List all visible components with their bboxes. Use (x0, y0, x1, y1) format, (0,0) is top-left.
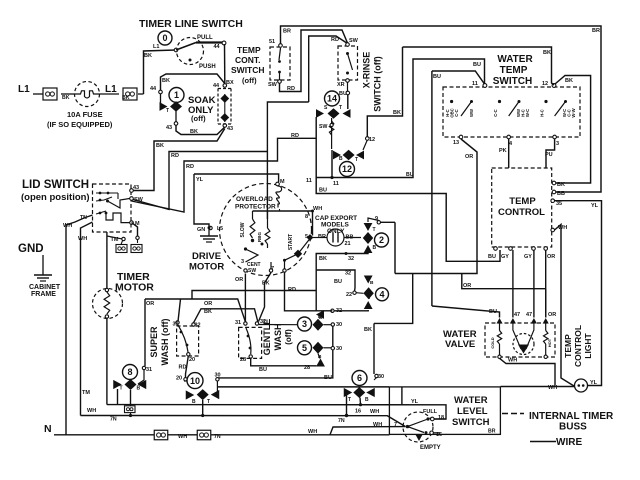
wire 22 to cam4 (356, 292, 363, 295)
svg-text:SLOW: SLOW (240, 222, 246, 237)
terminal soak right top (223, 84, 227, 88)
cam6 arrow right (366, 388, 375, 397)
WTS contact dot 2 (498, 100, 501, 103)
svg-text:TEMP: TEMP (563, 334, 573, 358)
soak contact arrow (160, 102, 168, 111)
svg-text:TM: TM (111, 237, 119, 243)
svg-text:18: 18 (438, 415, 444, 421)
svg-text:SWITCH: SWITCH (231, 65, 265, 75)
svg-text:INTERNAL TIMER: INTERNAL TIMER (529, 411, 614, 422)
cam14 arrow right (343, 109, 351, 118)
wire BU gentle 28 (251, 358, 317, 366)
wire WH lid 2 down (81, 222, 93, 416)
cam12 diamond (343, 150, 355, 160)
wire N buss (54, 434, 389, 436)
svg-text:SW: SW (134, 197, 144, 203)
svg-text:WH: WH (178, 434, 187, 440)
wire cam14 to cam12 (331, 118, 333, 149)
lid contact (99, 199, 102, 202)
svg-text:44: 44 (150, 86, 157, 92)
svg-text:RD: RD (331, 37, 339, 43)
timer cam circle 2 (375, 233, 389, 247)
svg-text:N: N (44, 423, 52, 435)
svg-text:FULL: FULL (423, 409, 438, 415)
svg-text:EMPTY: EMPTY (420, 445, 441, 451)
wire BU down to cam 14 contact (347, 95, 349, 109)
svg-text:DRIVE: DRIVE (192, 251, 221, 262)
cam2 diamond (363, 232, 373, 244)
terminal 28 gentle (249, 355, 252, 358)
terminal 20 low (184, 378, 187, 381)
connector plug L1-1 (43, 88, 57, 100)
water level switch box (389, 387, 500, 435)
svg-text:WASH (off): WASH (off) (160, 319, 170, 366)
svg-text:7N: 7N (214, 434, 221, 440)
timer motor bottom terminal (105, 315, 108, 318)
ground symbol cabinet (42, 268, 44, 275)
svg-text:WW: WW (469, 109, 474, 117)
wire cam4 bottom to 32 (334, 309, 368, 312)
stub (267, 211, 269, 228)
svg-text:SWITCH (off): SWITCH (off) (373, 56, 383, 111)
cent sw arm (246, 249, 259, 262)
wire OR from WTS 13 (395, 139, 477, 274)
svg-text:4: 4 (379, 290, 384, 300)
soak link diamond 2 (220, 113, 229, 122)
svg-text:8: 8 (127, 367, 132, 377)
svg-text:WASH: WASH (273, 324, 283, 351)
WTS arm dot (564, 100, 567, 103)
wire cam8 B down (130, 390, 132, 406)
junction 7N (345, 414, 348, 417)
svg-text:9: 9 (375, 216, 378, 222)
wire BK motor 7 to gentle 32 (259, 273, 272, 322)
contact arm lower (279, 72, 281, 80)
svg-text:GY: GY (501, 254, 509, 260)
svg-text:GY: GY (524, 254, 532, 260)
terminal timer line switch left (174, 48, 178, 52)
svg-text:RBG: RBG (257, 232, 262, 242)
water level switch dashed circle (403, 412, 433, 442)
svg-text:0: 0 (162, 33, 167, 43)
super wash arm (178, 325, 188, 352)
svg-text:BU: BU (433, 74, 441, 80)
connector N 2 (197, 430, 211, 440)
wire RD lid switch SW run (132, 152, 268, 210)
soak link dash right (230, 89, 232, 125)
terminal 35 (551, 199, 555, 203)
connector N 1 (154, 430, 168, 440)
soak link wire (224, 94, 226, 122)
wire 16 stub (434, 432, 441, 434)
terminal 4 (507, 135, 511, 139)
svg-text:BU: BU (489, 309, 497, 315)
svg-text:T: T (348, 397, 351, 403)
terminal L5 (209, 226, 212, 229)
svg-text:(off): (off) (284, 329, 293, 345)
wire BK line C super32-gentle32 (194, 309, 259, 323)
valve cold bottom terminal (498, 355, 501, 358)
svg-text:SW: SW (319, 124, 327, 130)
svg-text:BR: BR (592, 28, 600, 34)
wire cam10 right up (216, 381, 218, 395)
water level arm EMPTY (408, 427, 425, 433)
terminal 30 right (375, 374, 378, 377)
wire BU long descender (431, 71, 433, 306)
svg-text:WH: WH (78, 236, 87, 242)
svg-text:5: 5 (302, 343, 307, 353)
svg-text:SW: SW (349, 38, 359, 44)
soak link dash bottom (218, 123, 231, 125)
svg-text:BK: BK (144, 53, 152, 59)
wire RD lid switch M run (132, 138, 317, 212)
timer cam circle 0 (158, 31, 172, 45)
svg-text:32: 32 (345, 271, 351, 277)
cam4 arrow B (364, 276, 373, 284)
push contact dot (189, 59, 192, 62)
svg-text:BK: BK (393, 110, 401, 116)
svg-text:43: 43 (133, 185, 139, 191)
svg-text:OR: OR (463, 283, 471, 289)
svg-text:OR: OR (235, 277, 243, 283)
wire YL buss to water level FULL (107, 405, 446, 419)
wire timer motor feed (106, 232, 108, 289)
drive motor dashed circle (220, 184, 312, 276)
svg-text:BB: BB (557, 191, 565, 197)
cam12 arrow B (333, 151, 341, 160)
svg-text:47: 47 (526, 312, 532, 318)
terminal 16 (430, 431, 434, 435)
svg-text:BK: BK (364, 327, 372, 333)
svg-text:VALVE: VALVE (445, 339, 475, 350)
wire BK lid switch 43 run (132, 129, 225, 191)
connector lid 1 (116, 245, 127, 253)
wire cap to cam2 (344, 237, 361, 239)
terminal 12 WTS (552, 84, 556, 88)
cam14 diamond (328, 108, 340, 118)
WTS switch arm (461, 102, 472, 117)
svg-text:WIRE: WIRE (556, 437, 582, 448)
wire YL 35 to temp control light (555, 201, 602, 386)
legend wire line (530, 441, 556, 443)
timer motor dashed circle (93, 289, 123, 319)
svg-text:WH: WH (63, 223, 72, 229)
terminal 32 super (192, 323, 195, 326)
water temp switch dashed box (443, 87, 580, 137)
svg-text:BU: BU (406, 172, 414, 178)
svg-text:START: START (288, 234, 294, 250)
terminal 31 super (176, 321, 179, 324)
wire node 11 buss (316, 59, 417, 178)
svg-text:20: 20 (189, 357, 195, 363)
svg-text:BU: BU (319, 188, 327, 194)
svg-text:RD: RD (186, 164, 194, 170)
wire BK soak bottom (176, 125, 225, 135)
terminal 13 (459, 135, 463, 139)
temp cont switch dashed box (270, 47, 290, 80)
wire OR to super 31 (178, 299, 181, 322)
wire BU to WTS 11 (417, 59, 485, 84)
wire lid TM stub (107, 236, 122, 239)
svg-text:FRAME: FRAME (31, 291, 56, 298)
lid contact (99, 192, 102, 195)
wire 31 into cam8 (138, 370, 144, 385)
wire BK water temp feed to cam12 (367, 47, 402, 137)
svg-text:YL: YL (591, 203, 599, 209)
terminal SW (278, 80, 282, 84)
svg-text:BUSS: BUSS (559, 422, 587, 433)
stub slow (252, 211, 254, 219)
svg-text:47: 47 (514, 312, 520, 318)
lid arm 2 (108, 199, 130, 209)
wire to cap (312, 211, 314, 236)
svg-text:32: 32 (348, 256, 354, 262)
valve terminal arrow (510, 318, 516, 324)
svg-text:OR: OR (548, 312, 556, 318)
svg-text:BU: BU (334, 279, 342, 285)
cam14 arrow S (316, 109, 324, 118)
wire RD main winding feed (267, 102, 308, 219)
svg-text:B: B (370, 280, 374, 286)
wire RD x-rinse feed (309, 36, 348, 102)
cam8 arrow right (138, 380, 147, 389)
wire thick to terminal 44 (196, 41, 223, 43)
svg-text:BK: BK (262, 281, 270, 287)
soak link diamond 1 (220, 94, 229, 103)
wire gentle 32 to cam3 (259, 324, 298, 326)
wire PK WTS 4 to temp control (508, 139, 510, 168)
lid contact (99, 212, 102, 215)
valve terminal arrow (496, 318, 502, 324)
wire into connector 2 (137, 240, 139, 244)
wire cam2 to 9 (368, 218, 379, 222)
terminal 12 (366, 137, 370, 141)
svg-text:10: 10 (190, 376, 200, 386)
svg-text:BK: BK (162, 78, 170, 84)
timer cam circle 12 (340, 162, 355, 177)
svg-text:X-RINSE: X-RINSE (362, 52, 372, 89)
lid contact (106, 200, 109, 203)
terminal 7 (406, 425, 409, 428)
terminal 3 (553, 135, 557, 139)
svg-text:B: B (373, 245, 377, 251)
super wash dashed box (177, 326, 199, 356)
wire 9 right (380, 221, 395, 223)
wire (138, 93, 144, 95)
svg-text:PROTECTOR: PROTECTOR (235, 204, 276, 211)
wire cam10 down (202, 400, 204, 416)
svg-text:PUSH: PUSH (199, 64, 216, 70)
timer cam circle 4 (376, 288, 389, 301)
terminal XR (346, 79, 350, 83)
junction (201, 414, 204, 417)
terminal RD (283, 269, 286, 272)
svg-text:10A FUSE: 10A FUSE (67, 110, 103, 119)
svg-text:20: 20 (176, 376, 182, 382)
svg-text:11: 11 (472, 81, 478, 87)
svg-text:11: 11 (306, 178, 312, 184)
switch arm timer line switch (176, 43, 196, 51)
valve solenoid COLD (497, 331, 501, 345)
svg-text:BR: BR (283, 29, 291, 35)
svg-text:(open position): (open position) (21, 192, 90, 203)
WTS contact dot 3 (544, 100, 547, 103)
dot (261, 243, 264, 246)
svg-text:L1: L1 (153, 44, 159, 50)
svg-text:BK: BK (62, 95, 70, 101)
svg-text:BU: BU (473, 62, 481, 68)
svg-text:H-C: H-C (540, 109, 545, 116)
wire WH temp control to light (555, 225, 575, 387)
stub (184, 380, 187, 382)
svg-text:LIGHT: LIGHT (583, 332, 593, 358)
svg-text:RD: RD (179, 365, 187, 371)
wire BU buss lower (316, 178, 500, 262)
wire 9 down to OR buss (394, 222, 396, 273)
svg-text:MOTOR: MOTOR (115, 282, 154, 294)
svg-text:YL: YL (411, 399, 419, 405)
svg-text:BU: BU (259, 367, 267, 373)
valve cold lead (499, 323, 501, 331)
cam3 diamond (313, 319, 324, 331)
svg-text:W-C: W-C (525, 109, 530, 117)
terminal WH (551, 228, 555, 232)
terminal 30 cam10 (216, 378, 219, 381)
EMPTY contact arrow (415, 434, 423, 441)
thermal element zigzag (329, 121, 333, 135)
terminal SW x-rinse (346, 43, 350, 47)
stub (267, 244, 269, 248)
svg-text:3: 3 (241, 259, 244, 265)
svg-text:YL: YL (590, 380, 598, 386)
wire 30 buss to water level switch (217, 386, 389, 388)
wire BK WTS 12 to temp control (555, 76, 591, 184)
svg-text:XR: XR (337, 82, 345, 88)
svg-text:C-C: C-C (493, 109, 498, 116)
wire GY to valve 47 right (533, 250, 535, 318)
valve hot bottom terminal (544, 355, 547, 358)
wire WH to light (501, 386, 575, 388)
wire to capacitor (313, 237, 327, 239)
lid contact bar (96, 192, 118, 194)
connector lid 2 (131, 245, 142, 253)
svg-text:WH: WH (370, 409, 379, 415)
legend pointer dash (502, 413, 524, 415)
wire BU upper corner to WTS 11 (432, 71, 485, 85)
svg-text:ONLY: ONLY (327, 228, 345, 235)
terminal BU temp control bottom (494, 247, 498, 251)
svg-text:T: T (373, 227, 376, 233)
svg-text:44: 44 (214, 44, 221, 50)
wire OR jog to valve column (462, 274, 546, 289)
svg-text:35: 35 (556, 201, 562, 207)
lid contact (105, 212, 108, 215)
svg-text:YL: YL (196, 177, 204, 183)
svg-text:TEMP: TEMP (500, 65, 528, 76)
svg-text:GND: GND (18, 243, 44, 255)
svg-text:22: 22 (346, 292, 352, 298)
wire OR to valve (545, 250, 547, 318)
svg-text:30: 30 (336, 322, 342, 328)
x-rinse contact dot (346, 52, 349, 55)
connector BO (125, 406, 136, 413)
terminal 18 (431, 417, 435, 421)
wire cam3 right (324, 324, 332, 326)
svg-text:8: 8 (305, 214, 308, 220)
wire timer motor down (106, 318, 108, 405)
svg-text:CONTROL: CONTROL (498, 207, 545, 218)
svg-text:OR: OR (465, 154, 473, 160)
gentle wash arm (246, 328, 251, 354)
svg-text:TIMER LINE SWITCH: TIMER LINE SWITCH (139, 18, 243, 30)
svg-text:12: 12 (542, 81, 548, 87)
soak link dash left (217, 89, 219, 125)
ground symbol motor (208, 229, 210, 236)
wire 30 link (332, 326, 334, 347)
svg-text:SUPER: SUPER (149, 326, 159, 358)
svg-text:BK: BK (543, 50, 551, 56)
wire WH internal (253, 210, 313, 212)
valve 47 right arm (526, 323, 534, 349)
start dot (283, 259, 286, 262)
wire YL motor top (194, 174, 279, 182)
terminal 20 super (187, 353, 190, 356)
svg-text:GN: GN (197, 227, 205, 233)
cam4 diamond (363, 287, 373, 299)
wire XR to BU (347, 82, 349, 91)
svg-text:7: 7 (394, 422, 397, 428)
lid arm (96, 197, 112, 201)
svg-text:WH: WH (308, 429, 317, 435)
svg-text:T: T (339, 105, 342, 111)
timer cam circle 10 (187, 373, 203, 389)
svg-text:BR: BR (488, 429, 496, 435)
x-rinse contact dot lower (346, 72, 349, 75)
svg-text:OR: OR (547, 254, 555, 260)
stub (318, 354, 320, 359)
svg-text:31: 31 (146, 367, 152, 373)
svg-text:13: 13 (453, 140, 459, 146)
valve 47 left arm (513, 323, 521, 349)
terminal 44 (222, 41, 226, 45)
terminal 43 right (223, 124, 227, 128)
WTS arm dot (518, 100, 521, 103)
terminal 30 (331, 323, 334, 326)
start contact diamond (294, 250, 302, 258)
svg-text:COLD: COLD (490, 337, 495, 348)
timer motor top terminal (105, 288, 108, 291)
svg-text:SWITCH: SWITCH (493, 76, 532, 87)
svg-text:WH: WH (87, 408, 96, 414)
valve mixing chamber dashed circle (513, 334, 534, 355)
svg-text:B: B (365, 397, 369, 403)
fuse element 10A (75, 91, 99, 98)
water valve dashed box (485, 323, 555, 357)
cam10 arrow right (211, 390, 220, 399)
terminal 30 (331, 347, 334, 350)
svg-text:LEVEL: LEVEL (457, 406, 488, 417)
FULL contact (426, 417, 429, 420)
cam10 diamond (197, 389, 209, 400)
svg-text:BK: BK (190, 129, 198, 135)
terminal 32 (331, 309, 334, 312)
svg-text:32: 32 (336, 308, 342, 314)
svg-text:BB: BB (346, 235, 354, 241)
wire YL drop (401, 387, 403, 405)
cam6 arrow left (344, 388, 353, 397)
svg-text:7N: 7N (338, 418, 345, 424)
wire BK L1 feed to timer line switch (144, 50, 177, 94)
